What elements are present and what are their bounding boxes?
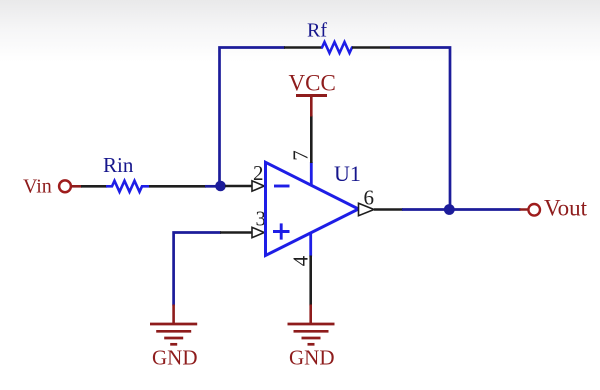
ground symbol right: [288, 324, 335, 344]
svg-text:Vout: Vout: [544, 196, 588, 221]
svg-text:Rin: Rin: [103, 153, 134, 177]
junction node inverting input: [215, 181, 226, 192]
svg-text:VCC: VCC: [289, 71, 336, 96]
pin 3 arrow: [252, 227, 264, 237]
junction node output: [444, 204, 455, 215]
wire net feedback right vertical: [390, 48, 450, 210]
ground stub right (dark red): [309, 305, 312, 324]
wire VCC net (black): [310, 116, 313, 164]
ground stub left (dark red): [172, 305, 175, 324]
pin 2 arrow: [252, 181, 264, 191]
wire Rf left lead (black): [284, 46, 322, 49]
resistor Rin body: [106, 181, 149, 192]
op-amp minus symbol: [274, 185, 290, 188]
op-amp plus symbol: [273, 223, 290, 239]
wire pin3 net from ground (navy): [174, 233, 221, 306]
svg-text:GND: GND: [152, 346, 198, 370]
wire Rf right lead (black): [352, 46, 390, 49]
wire net to pin2 (navy into junction): [205, 185, 220, 188]
pin 7 stub (blue): [310, 162, 313, 186]
power VCC bar: [296, 94, 327, 97]
svg-text:Vin: Vin: [23, 176, 52, 198]
svg-text:U1: U1: [334, 161, 361, 186]
svg-text:4: 4: [288, 255, 312, 266]
power VCC stub (dark red): [310, 96, 313, 117]
wire Vin stub (dark red): [72, 185, 83, 188]
svg-text:2: 2: [253, 161, 264, 185]
terminal Vin: [59, 180, 71, 192]
op-amp U1 triangle: [266, 162, 359, 255]
wire junction to pin 2 (black): [225, 185, 253, 188]
wire pin3 lead (black): [220, 231, 253, 234]
pin 6 arrow (output): [359, 203, 375, 215]
wire net feedback top: [220, 48, 286, 187]
wire pin6 lead (black): [374, 208, 403, 211]
svg-text:7: 7: [288, 150, 312, 161]
wire output net (navy): [402, 208, 521, 211]
pin 4 stub (blue): [309, 232, 312, 257]
resistor Rf body: [321, 42, 353, 53]
svg-text:Rf: Rf: [307, 20, 327, 42]
wire Rin left lead (black): [81, 185, 107, 188]
ground symbol left: [150, 324, 197, 344]
terminal Vout: [528, 204, 540, 216]
wire Vout stub (dark red): [520, 208, 529, 211]
wire pin4 to ground (black): [309, 256, 312, 306]
wire Rin right lead (black): [149, 185, 206, 188]
svg-text:6: 6: [364, 186, 375, 210]
svg-text:GND: GND: [289, 346, 335, 370]
